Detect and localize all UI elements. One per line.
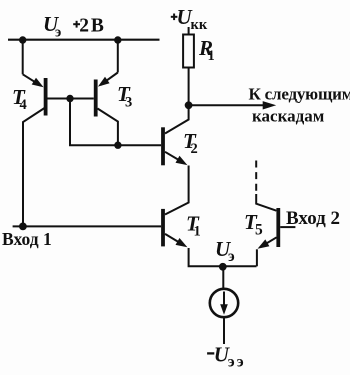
svg-text:1: 1 xyxy=(208,48,215,64)
node T3 collector junction xyxy=(114,142,121,149)
wire common node to current source xyxy=(222,267,224,289)
wire T3 emitter feed xyxy=(98,40,118,87)
svg-text:э: э xyxy=(228,354,235,371)
svg-text:каскадам: каскадам xyxy=(252,107,325,126)
label Vkhod 1 xyxy=(2,229,52,249)
wire input 1 line xyxy=(13,225,162,227)
node input 1 junction xyxy=(19,223,27,231)
label +2 V xyxy=(73,15,104,36)
svg-text:2: 2 xyxy=(191,141,198,157)
svg-text:2: 2 xyxy=(79,15,89,36)
transistor T4 xyxy=(23,78,70,226)
label T4 xyxy=(12,85,27,113)
wire output arrow to next stages xyxy=(189,101,277,109)
svg-text:э: э xyxy=(237,354,244,371)
transistor T2 xyxy=(161,105,189,165)
label U_e top xyxy=(43,12,61,41)
svg-text:1: 1 xyxy=(194,224,201,240)
transistor T1 xyxy=(161,209,187,247)
transistor T3 xyxy=(70,80,118,146)
wire T5 collector dashed xyxy=(256,161,276,211)
node output junction xyxy=(185,101,193,109)
label +U_kk xyxy=(171,5,208,33)
wire T1 emitter down to common node xyxy=(189,248,257,266)
current source I1 xyxy=(210,289,238,317)
svg-text:э: э xyxy=(228,248,235,265)
svg-text:э: э xyxy=(55,25,61,41)
svg-text:кк: кк xyxy=(191,17,208,33)
label T3 xyxy=(117,82,132,111)
label R1 xyxy=(198,36,215,64)
label T5 xyxy=(244,210,263,239)
label T2 xyxy=(183,129,198,157)
wire base tie down to T2 base xyxy=(70,99,161,146)
label Vkhod 2 xyxy=(286,208,340,229)
label K sledujushchim xyxy=(249,85,350,104)
svg-text:5: 5 xyxy=(255,222,263,239)
wire T4 emitter feed xyxy=(23,40,44,87)
svg-text:Вход 1: Вход 1 xyxy=(2,229,52,249)
wire +Ukk to R1 xyxy=(188,27,190,35)
node T4-T3 base tie xyxy=(66,95,73,102)
transistor T5 xyxy=(258,208,296,249)
svg-text:3: 3 xyxy=(125,95,132,111)
label -U_ee xyxy=(207,342,244,370)
wire R1 to output node xyxy=(188,68,190,107)
wire top +2V rail xyxy=(8,39,160,41)
wire T5 emitter down xyxy=(256,249,258,266)
wire current source to -Uee xyxy=(223,317,225,344)
svg-text:4: 4 xyxy=(20,97,27,113)
node rail-T3 junction xyxy=(114,36,121,43)
label kaskadam xyxy=(252,107,325,126)
svg-text:К следующим: К следующим xyxy=(249,85,350,104)
node rail-T4 junction xyxy=(19,36,26,43)
wire T2 emitter to T1 collector xyxy=(165,166,189,215)
svg-text:Вход 2: Вход 2 xyxy=(286,208,340,229)
svg-text:В: В xyxy=(91,15,104,36)
node common emitter junction xyxy=(219,263,227,271)
label T1 xyxy=(186,212,201,240)
resistor R1 xyxy=(183,35,194,68)
label U_e bottom xyxy=(215,237,235,265)
